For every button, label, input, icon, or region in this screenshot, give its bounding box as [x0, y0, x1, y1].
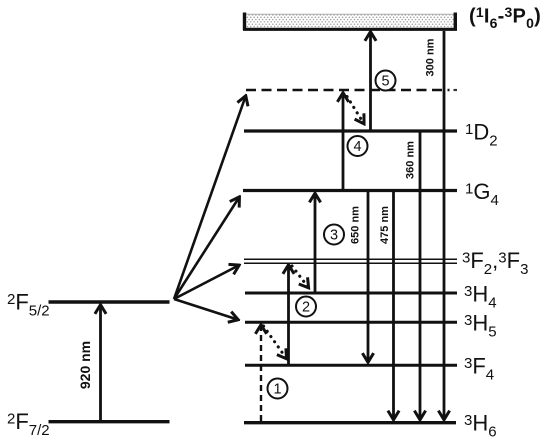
step arrow 4 1G4 to dashed level [342, 94, 345, 190]
emission arrow 300 nm band to 3H6 [443, 31, 446, 419]
svg-text:5: 5 [381, 74, 389, 90]
dashed level end dot [454, 89, 458, 91]
svg-text:2F5/2: 2F5/2 [7, 290, 50, 320]
level 1D2 [244, 129, 457, 132]
svg-text:920 nm: 920 nm [77, 341, 93, 389]
emission arrow 650 nm 1G4 to 3F4 [367, 192, 370, 362]
step arrow 5 1D2 to band [369, 33, 372, 130]
step arrow 3 3H4 to 1G4 [314, 194, 317, 292]
circled 5 [376, 71, 396, 91]
dotted relaxation arrow 3F2,3F3 to 3H4 [292, 266, 308, 287]
circled 2 [296, 297, 316, 317]
svg-text:1: 1 [273, 382, 281, 398]
level 1G4 [243, 189, 457, 192]
dotted relaxation arrow 3H5 to 3F4 [264, 326, 287, 358]
svg-text:3F2,3F3: 3F2,3F3 [462, 248, 528, 278]
svg-text:1G4: 1G4 [465, 179, 499, 209]
svg-text:475 nm: 475 nm [379, 206, 391, 244]
step arrow 2 3F4 to 3F2,3F3 [287, 266, 290, 365]
circled 1 [268, 379, 288, 399]
level 3H4 [245, 292, 457, 295]
svg-text:360 nm: 360 nm [405, 141, 417, 179]
svg-text:(1I6-3P0): (1I6-3P0) [469, 4, 541, 31]
ET fan arrow to 1G4 [174, 198, 239, 300]
circled 4 [348, 136, 368, 156]
svg-text:300 nm: 300 nm [425, 38, 437, 76]
svg-text:3H5: 3H5 [464, 311, 497, 341]
dotted relaxation arrow dashed level to 1D2 [347, 97, 364, 124]
svg-text:3H4: 3H4 [464, 282, 497, 312]
level 3H5 [245, 321, 457, 324]
svg-text:2: 2 [302, 300, 310, 316]
level 3F2,3F3 double line [244, 259, 457, 263]
ET fan arrow to 3H5 [174, 299, 238, 320]
dashed virtual level [246, 89, 450, 92]
pump arrow 920 nm [99, 306, 102, 421]
level 2F7/2 [49, 420, 170, 423]
emission arrow 360 nm 1D2 to 3H6 [419, 133, 422, 420]
svg-text:4: 4 [353, 139, 361, 155]
svg-text:3H6: 3H6 [464, 411, 497, 441]
svg-text:3: 3 [330, 228, 338, 244]
ET fan arrow to dashed level [174, 97, 246, 300]
svg-text:1D2: 1D2 [465, 120, 498, 150]
level 3H6 [244, 421, 456, 424]
svg-text:3F4: 3F4 [464, 354, 494, 384]
svg-text:2F7/2: 2F7/2 [7, 409, 50, 439]
circled 3 [324, 225, 344, 245]
emission arrow 475 nm 1G4 to 3H6 [392, 192, 395, 419]
hatched band (1I6-3P0) box [243, 13, 457, 31]
level 2F5/2 [49, 300, 170, 303]
step arrow 1 dashed 3H6 to 3H5 [260, 326, 262, 422]
svg-text:650 nm: 650 nm [350, 206, 362, 244]
ET fan arrow to 3F2,3F3 [174, 266, 239, 300]
level 3F4 [245, 364, 457, 367]
